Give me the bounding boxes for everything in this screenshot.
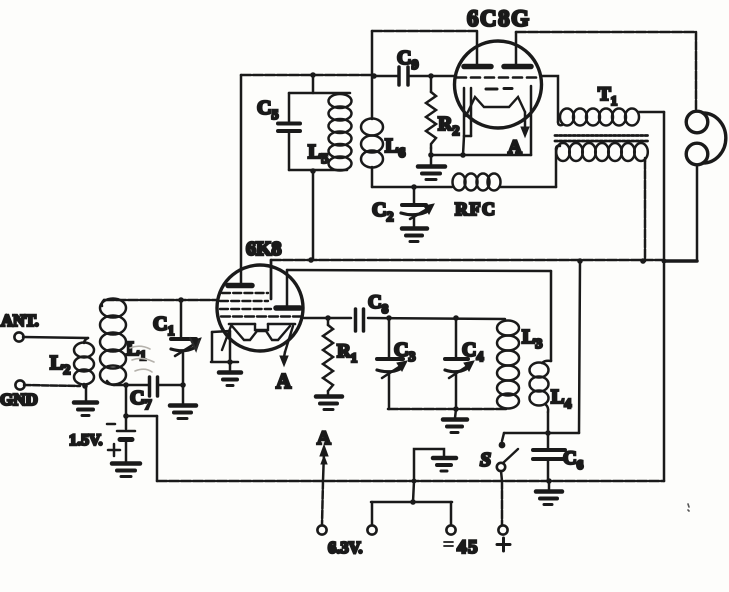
svg-text:A: A [276,369,292,393]
capacitor C9 [374,67,456,85]
svg-text:ANT.: ANT. [1,311,39,330]
terminal A [317,525,326,534]
transformer T1 secondary [556,143,648,161]
svg-text:L5: L5 [308,141,328,167]
svg-text:45: 45 [457,537,479,558]
wire top right to phones [516,31,696,34]
node C9-L6 [371,73,377,79]
label C5 [257,97,278,123]
wire R2 bottom to cathode box [431,86,531,155]
label C9 [397,47,418,73]
svg-text:RFC: RFC [455,199,497,219]
node bus L4 riser [577,258,583,264]
transformer T1 primary [558,109,664,126]
wire 6C8G right to T1 [541,76,558,122]
label L3 [522,326,542,352]
node bus hook [412,479,417,484]
wire L5 bottom drop [312,171,315,260]
label 6K8 [246,238,282,260]
6K8 plate top [228,283,252,289]
svg-text:C1: C1 [153,313,174,339]
label minus45 [444,537,479,558]
battery 1.5V [117,386,135,462]
wire GND to L2 [24,385,80,386]
svg-text:C5: C5 [257,97,278,123]
node C4 bottom [453,406,459,412]
ground C4 [443,409,467,433]
label 6.3V [328,538,363,557]
svg-text:C8: C8 [368,292,389,316]
node L5 top [310,72,316,78]
capacitor C3 variable [377,318,407,409]
inductor L4 [530,271,552,433]
label C2 [372,199,393,225]
label C1 [153,313,174,339]
inductor RFC [414,174,556,191]
wire B+ bus [271,260,664,299]
T1 core [555,136,649,142]
6K8 plate right [276,270,300,308]
label L6 [385,135,405,161]
label C8 [368,292,389,316]
svg-text:C2: C2 [372,199,393,225]
inductor L3 [497,321,519,409]
ground R2 [418,155,445,180]
capacitor C2 variable [401,187,434,227]
svg-text:R1: R1 [337,341,357,365]
node cathode junction [460,152,466,158]
op tube 6C8G U2 envelope [455,41,542,128]
label R2 [438,113,459,139]
label ANT [1,311,39,330]
wire 6K8 output [304,317,351,320]
label C4 [462,339,483,365]
svg-text:L1: L1 [126,338,146,364]
svg-text:T1: T1 [598,84,617,108]
wire battery to bottom bus [126,416,157,481]
svg-text:S: S [480,449,491,471]
node L4 bottom [545,430,551,436]
node minus45 [410,499,416,505]
label T1 [598,84,617,108]
wire L6 bottom to C2 [372,186,414,189]
capacitor C5 [278,75,350,170]
label C7 [130,387,151,413]
inductor L6 [361,76,383,187]
speck right [688,504,689,511]
wire minus45 riser [413,481,414,502]
label L4 [551,386,571,412]
wire 6K8 plate line [287,270,551,271]
smudge L1 [130,346,154,372]
terminal plus [498,525,507,534]
wire T1 primary right drop [663,112,666,481]
tube 6K8 envelope [217,265,303,351]
inductor L2 [74,338,94,386]
terminal 6.3V [367,525,376,534]
svg-text:L4: L4 [551,386,571,412]
inductor L1 [100,299,126,386]
capacitor C7 [150,377,184,396]
wire tank bottom [388,408,507,411]
6C8G grid bars [486,87,512,91]
battery plus [108,444,120,456]
inductor L5 [329,94,352,171]
wire 6K8 plate riser [240,75,243,283]
capacitor C1 variable [171,300,201,385]
label 6C8G [467,6,531,31]
arrow A filament [320,445,328,525]
node bus T1 secondary [640,258,646,264]
switch S [497,433,518,525]
svg-text:1.5V.: 1.5V. [69,432,103,449]
svg-text:L2: L2 [50,352,70,378]
headphones [686,111,726,165]
ground hook [414,449,456,481]
svg-text:6K8: 6K8 [246,238,282,260]
svg-text:GND: GND [0,390,38,409]
6K8 grids dashed [220,293,302,317]
6C8G plate right [504,32,531,67]
svg-text:6C8G: 6C8G [467,6,531,31]
wire phones bottom [664,165,697,261]
6K8 arrow A [280,352,288,366]
node C4 top [453,315,459,321]
ground L2 [74,386,97,416]
label A 6K8 [276,369,292,393]
label C3 [394,339,415,365]
ground 6K8 [219,362,241,386]
6C8G arrow A [521,112,529,137]
label plus [497,538,510,551]
terminal minus45 [446,525,455,534]
node C9-R2 [428,73,434,79]
svg-text:L3: L3 [522,326,542,352]
ground R1 [316,397,342,410]
antenna terminal [14,332,23,341]
label L1 [126,338,146,364]
node bus phones [662,259,667,264]
capacitor C6 [533,433,565,481]
6K8 grid riser from bus [270,260,273,299]
6K8 cathode loop [211,331,238,362]
label L5 [308,141,328,167]
ground C7 [170,386,196,419]
node L2 gnd [82,383,88,389]
label RFC [455,199,497,219]
wire RFC to T1 secondary [555,149,558,187]
svg-text:6.3V.: 6.3V. [328,538,363,557]
wire T1 secondary right drop [644,161,647,261]
node C6 bottom [546,478,552,484]
resistor R2 [426,76,436,155]
node L5 bottom [310,168,316,174]
node C1 bottom [180,382,186,388]
svg-text:C6: C6 [563,448,584,472]
wire bottom bus [157,480,664,483]
6K8 cathode crown [222,324,295,352]
wire minus45 [371,502,452,525]
node C7 left [123,382,129,388]
wire L1 top to 6K8 [104,299,218,302]
label L2 [50,352,70,378]
label A filament [317,428,331,449]
label A 6C8G [508,137,522,158]
svg-text:A: A [317,428,331,449]
node C2 [411,184,417,190]
6C8G cathode loop [463,88,471,155]
node C1 top [178,297,184,303]
ground battery [112,464,140,477]
wire phones drop [695,32,698,111]
wire left drop to L6 node [371,31,374,75]
svg-text:L6: L6 [385,135,405,161]
wire L1 bottom [114,384,148,387]
wire tank top [241,74,374,77]
label 1.5V [69,432,103,449]
smudge check [190,338,199,350]
battery minus [107,423,115,426]
label C6 [563,448,584,472]
capacitor C8 [356,309,506,331]
resistor R1 [323,318,333,395]
6C8G grid dashed [457,76,540,79]
wire 6.3V riser [371,502,374,525]
ground C6 [536,481,562,505]
6C8G plate left [464,31,491,67]
ground terminal GND [15,380,24,389]
label R1 [337,341,357,365]
wire top left B+ [372,30,476,33]
label GND [0,390,38,409]
node 6K8 cathode [227,359,233,365]
capacitor C4 variable [445,318,474,409]
svg-text:R2: R2 [438,113,459,139]
ground C2 [402,229,427,242]
node battery top [123,413,129,419]
node C3 top [386,315,392,321]
6C8G cathode crown [466,97,525,116]
node R1 [325,315,331,321]
label S [480,449,491,471]
wire L4 node [504,261,580,433]
node R2 bottom [428,152,434,158]
wire ANT to L2 [23,337,88,338]
node bus L5 [308,257,314,263]
